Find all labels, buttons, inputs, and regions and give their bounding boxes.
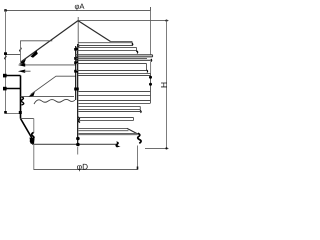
step4 lines xyxy=(79,128,129,130)
dimension line phiA xyxy=(6,7,151,10)
band2 lip xyxy=(137,51,138,54)
left band low line xyxy=(4,88,21,90)
rivet left low xyxy=(3,87,7,91)
diffuser cone left xyxy=(21,119,34,141)
phiD right tick xyxy=(137,167,139,170)
jog on x20.5 xyxy=(19,48,21,52)
base right rolled edge xyxy=(138,133,141,143)
rolled lip duct wall xyxy=(78,117,80,123)
wall rivet lower xyxy=(76,143,80,147)
bottom line end roll xyxy=(116,142,119,147)
phiA right extension line xyxy=(150,10,152,54)
broken-out edge line xyxy=(21,96,75,98)
leader to wall xyxy=(23,64,76,66)
dot on extension xyxy=(4,52,7,55)
arrowhead cap rim xyxy=(19,59,26,64)
phiA left extension line xyxy=(5,10,7,112)
left band mid line xyxy=(4,75,21,77)
svg-text:φD: φD xyxy=(77,163,88,172)
rolled lip shell wall xyxy=(21,97,24,106)
inner shell left wall upper xyxy=(20,41,22,62)
phiD right extension xyxy=(137,146,139,170)
left bottom plate line xyxy=(6,112,21,114)
phiD dimension line xyxy=(34,169,138,171)
shell left wall xyxy=(20,76,22,119)
leader arrow broken section xyxy=(29,92,36,97)
shell lines right xyxy=(78,73,151,103)
arrow upper xyxy=(18,63,25,66)
leader polyline xyxy=(31,76,76,94)
duct left wall xyxy=(33,119,35,133)
cap right slope xyxy=(78,21,111,42)
corner dot xyxy=(19,111,22,114)
wall cut blobs xyxy=(74,48,78,51)
H bottom dot xyxy=(165,147,167,149)
shell rivets right xyxy=(149,76,152,79)
phiD left extension xyxy=(33,144,35,170)
H dimension line xyxy=(166,21,168,149)
break wavy line xyxy=(34,99,75,104)
skirt diagonal right xyxy=(127,128,138,134)
ring wide xyxy=(75,55,153,61)
wall top hooks xyxy=(78,45,79,48)
inner duct wall pair xyxy=(75,46,77,100)
base left rolled edge xyxy=(31,133,34,144)
step2 lip xyxy=(139,111,142,113)
step2 lines xyxy=(79,106,141,111)
centerline xyxy=(77,17,79,44)
band1 lip xyxy=(131,43,134,45)
stub below base xyxy=(77,147,79,155)
cap left slope xyxy=(21,21,78,62)
step3 lines xyxy=(79,118,134,121)
rivet left mid xyxy=(3,74,7,78)
band2 lines xyxy=(76,47,137,52)
band3 lines xyxy=(76,64,147,71)
band1 lines xyxy=(78,41,132,45)
ring lip xyxy=(150,59,153,62)
cone top edge xyxy=(21,118,34,120)
svg-text:φA: φA xyxy=(74,2,85,11)
left band top line xyxy=(5,53,21,55)
corner dot xyxy=(4,9,6,11)
arrow mark left wall xyxy=(18,70,25,73)
svg-text:H: H xyxy=(159,82,169,88)
shell top edge line xyxy=(21,41,53,44)
base top lines xyxy=(79,133,138,134)
weld mark on slope xyxy=(31,51,38,58)
band3 lip xyxy=(147,70,148,73)
wall rivet upper xyxy=(76,137,80,141)
ring inner line xyxy=(76,57,147,59)
jog on x5.5 xyxy=(4,56,6,60)
base bottom line xyxy=(32,143,118,145)
H extension top line xyxy=(78,20,169,22)
H extension top dot xyxy=(165,20,167,22)
H bottom extension line xyxy=(145,147,169,149)
extension end dot xyxy=(4,111,7,114)
